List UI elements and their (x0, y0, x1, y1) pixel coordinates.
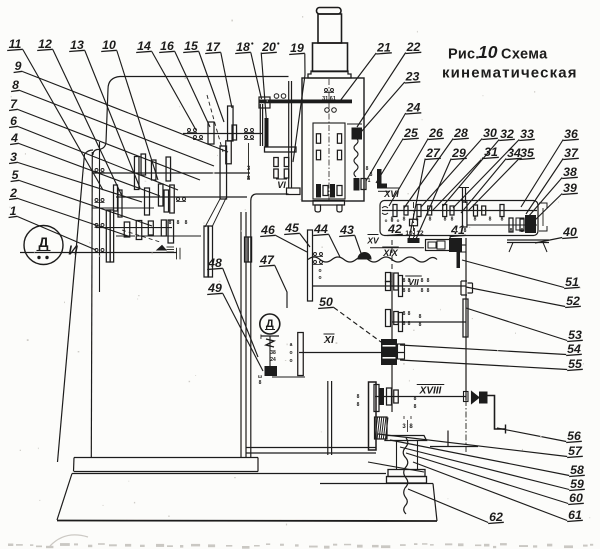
svg-text:8: 8 (370, 172, 373, 178)
svg-text:VI: VI (277, 180, 286, 190)
label 24 (366, 101, 421, 182)
label 14 (136, 39, 196, 130)
cluster on central shaft (mid) (386, 310, 391, 327)
label 23 (361, 70, 420, 133)
label 28 (404, 126, 469, 208)
label 34 (461, 146, 522, 213)
svg-text:8: 8 (429, 217, 432, 223)
shaft label XVI (383, 188, 400, 199)
motor M2 block (23 target) (352, 128, 363, 140)
label 31 (433, 145, 499, 210)
label 32 (443, 127, 515, 206)
label 37 (526, 146, 579, 214)
XI worm cluster dark (381, 339, 397, 365)
svg-text:8: 8 (403, 278, 406, 284)
svg-text:8: 8 (403, 311, 406, 317)
label 5 (11, 168, 152, 226)
label 25 (376, 126, 419, 183)
svg-text:38: 38 (270, 350, 276, 356)
right bracket outside box (539, 203, 547, 231)
svg-text:Д: Д (39, 234, 49, 250)
label 58 (390, 440, 585, 477)
screw squiggle (403, 438, 408, 514)
label 22 (357, 40, 421, 127)
label 21 (340, 41, 392, 102)
head main body (302, 78, 364, 201)
label 57 (378, 434, 583, 458)
knee bottom lines (246, 447, 376, 449)
bracket in head left (265, 118, 269, 147)
svg-text:8: 8 (416, 217, 419, 223)
label 61 (413, 462, 583, 522)
label 36 (521, 127, 579, 207)
svg-text:10: 10 (405, 230, 413, 237)
svg-text:8: 8 (408, 288, 411, 294)
reverse shaft (116, 235, 201, 237)
svg-text:8: 8 (427, 288, 430, 294)
svg-text:8: 8 (185, 220, 188, 226)
column foot (74, 457, 258, 459)
label 46 (260, 223, 307, 252)
column right edge (upper, under head) (251, 194, 289, 458)
bevel cluster 48/49 (265, 366, 278, 376)
svg-text:2: 2 (9, 186, 17, 200)
svg-text:8: 8 (501, 217, 504, 223)
label 29 (416, 146, 467, 239)
label 15 (183, 39, 224, 122)
feed gearbox outline (380, 201, 538, 236)
svg-text:о: о (289, 350, 292, 356)
svg-text:8: 8 (419, 314, 422, 320)
label 50 (318, 295, 381, 342)
svg-text:о: о (397, 218, 400, 223)
label 33 (453, 127, 535, 208)
svg-text:8: 8 (489, 217, 492, 223)
pulley on motor shaft (204, 226, 208, 277)
circles on bar (274, 94, 279, 99)
svg-text:XIX: XIX (382, 248, 399, 258)
svg-text:4: 4 (10, 131, 18, 145)
vertical shaft line x=99.5 (99, 142, 101, 292)
label 55 (400, 357, 583, 371)
gears reverse cluster (124, 222, 130, 237)
spindle centerline (328, 79, 330, 201)
head bottom dark cluster (316, 184, 321, 198)
label 10 (101, 38, 158, 180)
svg-text:12: 12 (416, 230, 424, 237)
cluster 24 target (354, 178, 360, 191)
knee front verticals (327, 381, 329, 455)
svg-text:XI: XI (323, 334, 335, 346)
feed box main shaft (382, 210, 537, 212)
label 40 (535, 225, 578, 243)
teeth count column x=248.5 (248, 143, 250, 179)
line below box (370, 247, 424, 249)
vertical shaft in box x=413.5 (413, 202, 415, 241)
label 42 (387, 222, 403, 236)
svg-text:8: 8 (421, 288, 424, 294)
label 39 (532, 181, 578, 223)
label 13 (69, 38, 140, 188)
gear bar 45/46 (308, 230, 313, 301)
label 12 (37, 37, 122, 196)
head interior gear marks (325, 89, 328, 92)
label 11 (7, 37, 103, 190)
label 9 (14, 59, 228, 152)
column top outline (108, 77, 289, 90)
svg-text:Рис.: Рис. (448, 47, 479, 63)
svg-text:8: 8 (366, 166, 369, 172)
title: Рис. 10 Схема кинематическая (442, 42, 578, 82)
label 43 (339, 223, 362, 256)
screw columns (396, 441, 398, 470)
svg-text:о: о (318, 268, 321, 274)
shaft XVII from head (462, 188, 464, 203)
svg-text:8: 8 (510, 228, 513, 234)
svg-text:8: 8 (403, 321, 406, 327)
label 30 (421, 126, 498, 207)
svg-text:8: 8 (357, 394, 360, 400)
shaft label XVIII (417, 385, 445, 397)
svg-text:8: 8 (419, 322, 422, 328)
label 35 (468, 146, 535, 211)
motor D2 (260, 314, 280, 334)
gear bar on right shaft (463, 299, 468, 337)
svg-text:1: 1 (368, 178, 371, 184)
shaft XI (299, 352, 405, 354)
label 20 (261, 40, 279, 135)
motor shaft (20, 252, 177, 254)
head bottom flange (313, 201, 345, 206)
central vertical shaft (391, 240, 393, 273)
label 26 (389, 126, 444, 206)
label 16 (159, 39, 210, 127)
belt lines (205, 198, 221, 227)
gear pairs below bracket (274, 158, 279, 167)
shaft IV (92, 207, 154, 209)
svg-text:И: И (68, 243, 78, 258)
shaft II (92, 172, 250, 174)
label 48 (207, 256, 258, 357)
label 8 (11, 78, 214, 166)
label 52 (466, 287, 581, 308)
svg-text:8: 8 (169, 220, 172, 226)
svg-text:8: 8 (414, 404, 417, 410)
label 59 (400, 447, 585, 491)
long pulley x=110 (106, 210, 110, 262)
svg-text:8: 8 (177, 220, 180, 226)
stand under worm (507, 239, 549, 241)
svg-text:Д: Д (266, 318, 274, 330)
svg-text:XV: XV (366, 236, 380, 246)
svg-text:8: 8 (408, 321, 411, 327)
label 53 (466, 308, 583, 342)
shaft label VII (405, 276, 422, 287)
label 17 (205, 40, 232, 108)
label 41 (450, 223, 466, 240)
universal joint dark arc (358, 253, 371, 259)
shaft y322 (392, 321, 466, 323)
head gear window (313, 123, 345, 199)
svg-text:8: 8 (451, 217, 454, 223)
svg-text:Схема: Схема (501, 47, 548, 63)
scan noise bottom edge (8, 543, 593, 549)
label 62 (408, 489, 504, 524)
column left upper edge (93, 89, 108, 155)
tall gear feed box (462, 202, 467, 227)
svg-text:8: 8 (403, 217, 406, 223)
shaft label XV (366, 235, 380, 246)
svg-text:8: 8 (464, 228, 467, 234)
belt symbol (157, 246, 166, 251)
label 54 (400, 342, 582, 356)
bar item21 (259, 100, 352, 104)
D2 vertical shaft (269, 336, 271, 368)
svg-text:8: 8 (444, 217, 447, 223)
svg-text:о: о (391, 218, 394, 223)
label 56 (497, 428, 582, 443)
feed box lower shaft (467, 224, 537, 226)
label 38 (528, 165, 578, 217)
shaft y377 to XI bar (272, 376, 305, 378)
label 51 (462, 260, 580, 289)
svg-text:8: 8 (408, 278, 411, 284)
svg-text:8: 8 (414, 396, 417, 402)
svg-text:XVI: XVI (383, 189, 399, 199)
svg-text:8: 8 (427, 278, 430, 284)
telescopic wavy shaft (308, 257, 437, 262)
svg-text:10: 10 (478, 42, 498, 62)
svg-text:8: 8 (521, 228, 524, 234)
electric motor D1 (24, 226, 63, 265)
screw flange (385, 436, 427, 441)
worm cluster dark (525, 215, 536, 233)
knee cluster on XVIII (375, 396, 466, 398)
column outer slanted edge (58, 154, 85, 462)
svg-text:8: 8 (403, 288, 406, 294)
head upper block (313, 43, 348, 72)
label 18 (235, 40, 261, 99)
shaft label XIX (382, 247, 399, 258)
shaft label VI (276, 179, 287, 190)
label 19 (289, 41, 305, 162)
svg-text:8: 8 (408, 311, 411, 317)
label 3 (9, 150, 142, 202)
spring (vertical wavy) (354, 138, 358, 177)
crank at right (472, 392, 480, 404)
worm hatched in knee (375, 417, 389, 439)
svg-text:31|61: 31|61 (322, 96, 336, 102)
head flange (308, 71, 351, 78)
column inner left vertical (91, 152, 92, 458)
svg-text:о: о (385, 218, 388, 223)
spindle motor cap (317, 8, 342, 15)
label 4 (10, 131, 160, 196)
column right double verticals (240, 212, 242, 458)
svg-text:8: 8 (474, 217, 477, 223)
shaft V (96, 227, 172, 229)
knee plate (369, 382, 377, 450)
label 44 (313, 222, 340, 257)
label 49 (207, 281, 263, 371)
right vertical feed shaft (465, 238, 467, 400)
svg-text:24: 24 (270, 357, 276, 363)
L bracket (25 target) (377, 169, 382, 184)
gears on shaft I (208, 122, 214, 144)
base (72, 473, 386, 475)
svg-text:8: 8 (421, 278, 424, 284)
label 7 (9, 97, 200, 180)
shaft to right v-shaft (y286) (313, 285, 466, 287)
svg-text:кинематическая: кинематическая (442, 65, 578, 82)
shaft I (183, 133, 262, 135)
svg-text:8: 8 (259, 380, 262, 386)
svg-text:о: о (318, 275, 321, 281)
screw stand (388, 470, 425, 477)
shaft label XI (323, 334, 335, 346)
vertical centerline below crank (465, 400, 467, 452)
label 2 (9, 186, 128, 236)
cluster on central shaft (upper) (386, 273, 391, 282)
label 27 (409, 146, 441, 239)
quill feet (315, 205, 321, 212)
spindle motor body (318, 14, 342, 43)
svg-text:8: 8 (357, 402, 360, 408)
pulley on column edge (245, 237, 248, 262)
clutch 41 (426, 240, 460, 251)
belt dash line (207, 95, 223, 152)
label 60 (406, 453, 584, 505)
rod item18/20 (259, 104, 261, 146)
jaw clutch (461, 281, 467, 295)
svg-text:XVIII: XVIII (419, 386, 442, 397)
label 1 (9, 204, 96, 250)
head left slide band (288, 81, 290, 188)
svg-text:о: о (289, 358, 292, 364)
label 45 (284, 221, 310, 247)
label 6 (9, 114, 178, 190)
label 47 (259, 253, 287, 308)
shaft III (116, 196, 247, 198)
gear bar left end XI (298, 333, 304, 376)
svg-text:а: а (290, 342, 293, 348)
